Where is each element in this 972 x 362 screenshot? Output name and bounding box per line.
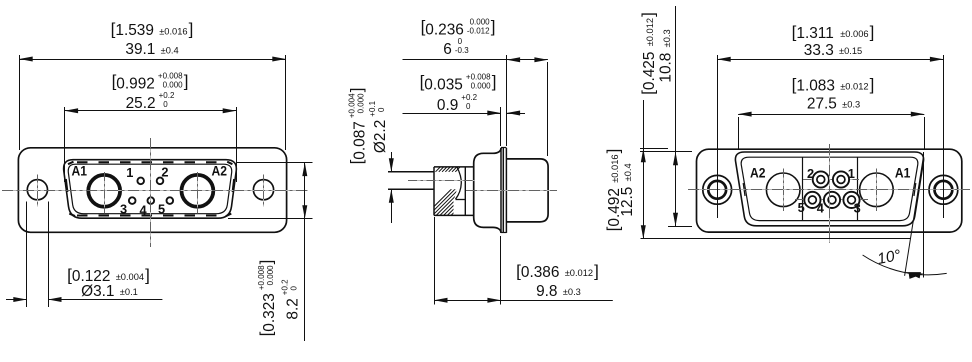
svg-text:0: 0 (458, 37, 463, 46)
svg-text:-0.3: -0.3 (455, 46, 469, 55)
svg-text:0.087: 0.087 (351, 121, 368, 160)
svg-text:0: 0 (377, 107, 386, 112)
svg-text:4: 4 (817, 201, 825, 216)
svg-text:1: 1 (126, 165, 133, 180)
svg-text:1.539: 1.539 (115, 22, 154, 39)
svg-text:]: ] (870, 23, 875, 42)
svg-text:9.8: 9.8 (536, 283, 557, 300)
svg-text:33.3: 33.3 (804, 42, 834, 59)
svg-text:]: ] (257, 260, 276, 265)
svg-text:5: 5 (798, 200, 805, 215)
svg-text:]: ] (603, 149, 622, 154)
svg-text:]: ] (145, 266, 150, 285)
svg-text:1: 1 (848, 166, 855, 181)
svg-text:±0.004: ±0.004 (116, 272, 144, 282)
svg-text:]: ] (594, 262, 599, 281)
svg-text:±0.3: ±0.3 (842, 100, 860, 110)
svg-text:0.323: 0.323 (261, 293, 278, 332)
svg-text:4: 4 (140, 203, 148, 218)
svg-text:0.425: 0.425 (641, 52, 658, 91)
svg-text:+0.008: +0.008 (466, 72, 491, 81)
svg-text:3: 3 (120, 202, 127, 217)
svg-text:±0.006: ±0.006 (840, 29, 868, 39)
svg-text:±0.15: ±0.15 (839, 46, 862, 56)
svg-text:]: ] (491, 17, 496, 36)
svg-text:Ø2.2: Ø2.2 (372, 120, 389, 153)
svg-text:+0.004: +0.004 (347, 93, 356, 118)
svg-text:]: ] (492, 72, 497, 91)
svg-text:8.2: 8.2 (285, 298, 302, 319)
svg-text:A2: A2 (212, 163, 228, 179)
svg-text:0: 0 (466, 102, 471, 111)
svg-text:]: ] (870, 75, 875, 94)
svg-text:0.000: 0.000 (470, 18, 491, 27)
svg-text:+0.2: +0.2 (281, 279, 290, 295)
svg-text:0.386: 0.386 (521, 264, 560, 281)
svg-text:1.311: 1.311 (796, 25, 833, 42)
svg-text:]: ] (638, 12, 657, 17)
svg-text:39.1: 39.1 (125, 41, 155, 58)
svg-text:0.992: 0.992 (116, 76, 155, 93)
svg-text:10.8: 10.8 (658, 53, 675, 83)
svg-text:6: 6 (443, 41, 452, 58)
svg-text:A1: A1 (71, 163, 87, 179)
svg-text:0.9: 0.9 (437, 97, 458, 114)
svg-text:]: ] (184, 71, 189, 90)
svg-text:±0.3: ±0.3 (563, 287, 581, 297)
svg-text:+0.1: +0.1 (368, 100, 377, 116)
svg-text:0.035: 0.035 (424, 76, 463, 93)
svg-text:0: 0 (163, 100, 168, 109)
svg-text:+0.2: +0.2 (159, 91, 175, 100)
svg-text:2: 2 (161, 165, 168, 180)
svg-text:0.000: 0.000 (471, 81, 492, 90)
svg-text:-0.012: -0.012 (467, 27, 490, 36)
svg-text:0.000: 0.000 (266, 265, 275, 286)
svg-text:5: 5 (158, 202, 165, 217)
svg-text:+0.2: +0.2 (461, 93, 477, 102)
svg-text:]: ] (347, 88, 366, 93)
svg-text:1.083: 1.083 (796, 77, 835, 94)
svg-text:3: 3 (854, 200, 861, 215)
svg-text:0.236: 0.236 (425, 22, 464, 39)
svg-text:±0.3: ±0.3 (662, 29, 672, 47)
svg-text:±0.016: ±0.016 (159, 26, 187, 36)
svg-text:0: 0 (290, 286, 299, 291)
svg-text:±0.016: ±0.016 (610, 154, 620, 182)
svg-text:0.000: 0.000 (163, 81, 184, 90)
svg-text:0.000: 0.000 (356, 93, 365, 114)
svg-text:2: 2 (807, 166, 814, 181)
svg-text:±0.1: ±0.1 (120, 287, 138, 297)
svg-text:]: ] (189, 20, 194, 39)
svg-text:A1: A1 (895, 164, 911, 180)
svg-text:+0.008: +0.008 (257, 265, 266, 290)
svg-text:A2: A2 (750, 164, 766, 180)
svg-text:+0.008: +0.008 (158, 72, 183, 81)
svg-text:Ø3.1: Ø3.1 (81, 283, 114, 300)
svg-text:±0.4: ±0.4 (623, 163, 633, 181)
svg-text:±0.012: ±0.012 (840, 82, 868, 92)
svg-text:27.5: 27.5 (807, 95, 837, 112)
svg-text:±0.012: ±0.012 (645, 18, 655, 46)
svg-text:25.2: 25.2 (126, 95, 156, 112)
svg-text:12.5: 12.5 (619, 187, 636, 217)
svg-text:±0.4: ±0.4 (161, 45, 179, 55)
svg-text:±0.012: ±0.012 (565, 268, 593, 278)
